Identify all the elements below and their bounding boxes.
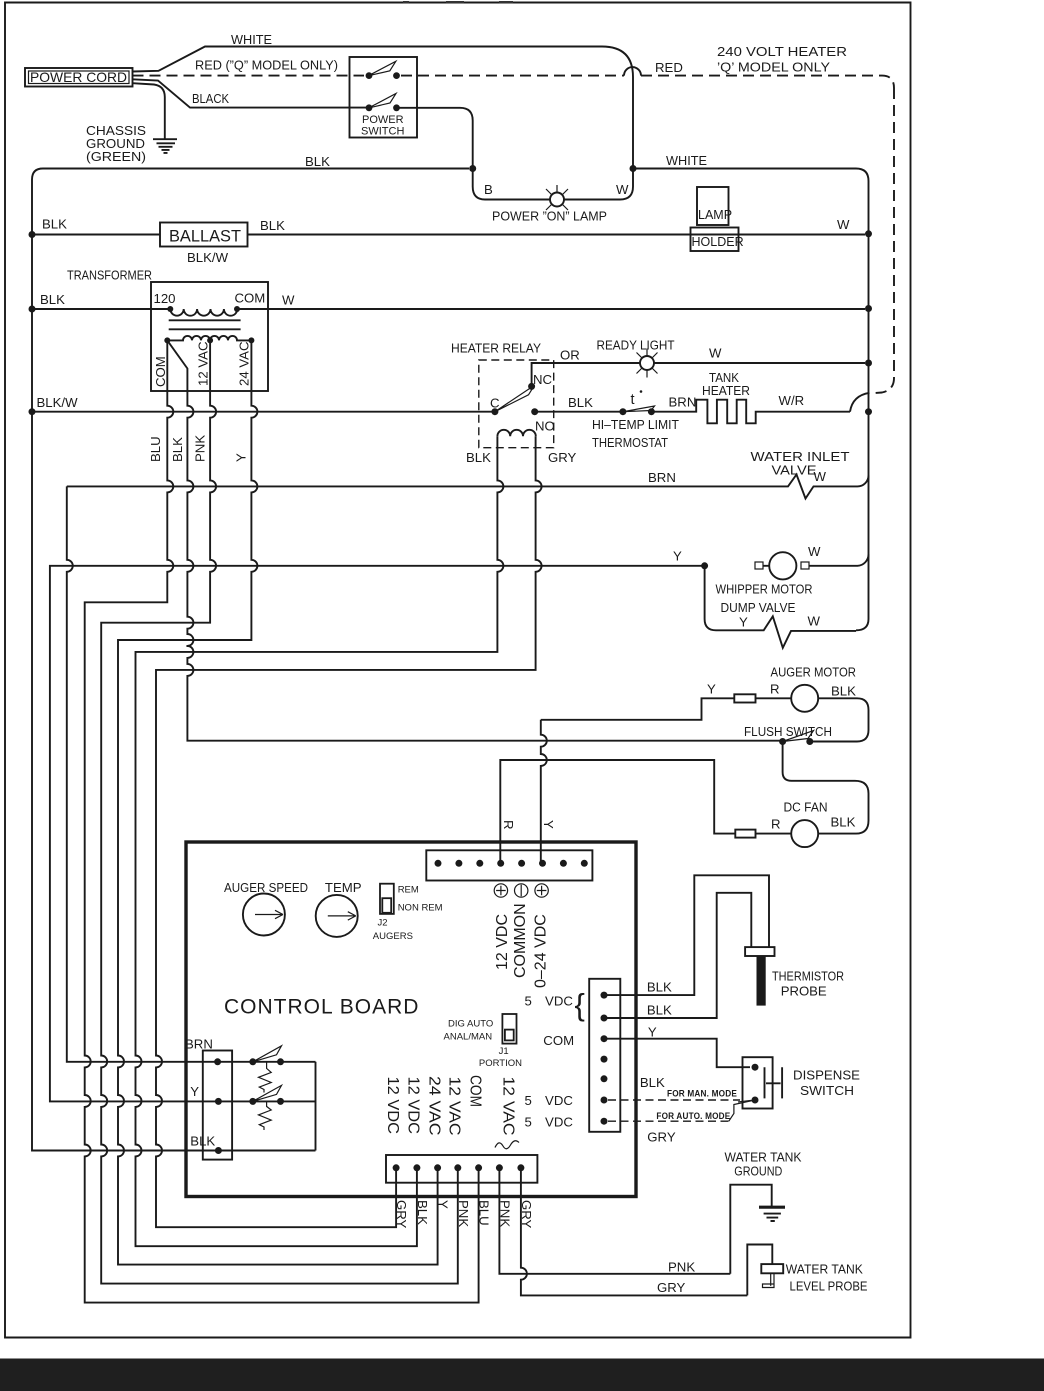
- svg-text:J1: J1: [499, 1046, 509, 1057]
- svg-text:C: C: [490, 396, 500, 411]
- svg-text:BLACK: BLACK: [192, 91, 229, 106]
- svg-text:BLK: BLK: [831, 684, 856, 699]
- svg-text:BLK: BLK: [568, 395, 593, 410]
- svg-text:0–24 VDC: 0–24 VDC: [533, 914, 550, 988]
- svg-text:BRN: BRN: [669, 395, 697, 410]
- svg-text:5 VDC: 5 VDC: [525, 1093, 574, 1108]
- svg-text:THERMOSTAT: THERMOSTAT: [592, 435, 668, 450]
- svg-text:FOR MAN. MODE: FOR MAN. MODE: [667, 1089, 737, 1099]
- svg-text:COMMON: COMMON: [512, 903, 529, 978]
- svg-text:GROUND: GROUND: [734, 1164, 782, 1179]
- svg-text:COM: COM: [543, 1033, 574, 1048]
- svg-text:BLK: BLK: [42, 217, 67, 232]
- svg-text:12 VAC: 12 VAC: [500, 1077, 517, 1136]
- svg-text:BALLAST: BALLAST: [169, 227, 241, 246]
- svg-text:GRY: GRY: [647, 1130, 676, 1145]
- svg-text:BLK/W: BLK/W: [37, 395, 79, 410]
- svg-text:REM: REM: [398, 885, 419, 896]
- svg-text:SWITCH: SWITCH: [361, 126, 404, 138]
- svg-text:12 VDC: 12 VDC: [384, 1077, 401, 1135]
- svg-text:PORTION: PORTION: [479, 1058, 522, 1069]
- svg-text:12 VAC: 12 VAC: [446, 1077, 463, 1136]
- svg-text:24 VAC: 24 VAC: [425, 1076, 442, 1136]
- svg-text:GRY: GRY: [548, 450, 577, 465]
- svg-text:COM: COM: [235, 291, 266, 306]
- svg-text:NON REM: NON REM: [398, 903, 443, 914]
- svg-text:OR: OR: [560, 348, 580, 363]
- svg-text:WHIPPER MOTOR: WHIPPER MOTOR: [716, 582, 813, 597]
- svg-text:Y: Y: [234, 453, 249, 462]
- svg-text:COM: COM: [466, 1075, 483, 1107]
- svg-text:SWITCH: SWITCH: [800, 1083, 854, 1098]
- svg-text:Y: Y: [673, 549, 682, 564]
- svg-text:HOLDER: HOLDER: [692, 235, 744, 249]
- svg-text:’Q’ MODEL ONLY: ’Q’ MODEL ONLY: [717, 60, 830, 75]
- svg-text:DIG AUTO: DIG AUTO: [448, 1019, 493, 1030]
- svg-text:J2: J2: [378, 918, 388, 929]
- svg-text:HEATER: HEATER: [702, 383, 750, 398]
- svg-text:BLK: BLK: [831, 815, 856, 830]
- svg-text:(GREEN): (GREEN): [86, 149, 146, 164]
- svg-text:BLU: BLU: [148, 436, 163, 462]
- svg-text:W: W: [808, 614, 821, 629]
- svg-text:PNK: PNK: [668, 1260, 695, 1275]
- svg-text:NC: NC: [533, 372, 553, 387]
- svg-text:TEMP: TEMP: [325, 880, 362, 895]
- svg-text:WATER TANK: WATER TANK: [725, 1150, 802, 1165]
- svg-text:PNK: PNK: [456, 1200, 471, 1227]
- svg-text:WHITE: WHITE: [666, 153, 707, 168]
- svg-text:THERMISTOR: THERMISTOR: [772, 969, 844, 984]
- svg-text:HEATER RELAY: HEATER RELAY: [451, 341, 541, 356]
- svg-text:RED: RED: [655, 60, 683, 75]
- svg-text:BLK: BLK: [190, 1134, 215, 1149]
- svg-text:240 VOLT HEATER: 240 VOLT HEATER: [717, 44, 847, 59]
- svg-text:R: R: [501, 820, 516, 830]
- svg-text:Y: Y: [739, 615, 748, 630]
- svg-text:R: R: [770, 682, 780, 697]
- svg-text:W: W: [282, 293, 295, 308]
- svg-text:HI–TEMP LIMIT: HI–TEMP LIMIT: [592, 417, 679, 432]
- svg-text:W/R: W/R: [779, 393, 805, 408]
- svg-text:POWER ”ON” LAMP: POWER ”ON” LAMP: [492, 209, 607, 224]
- svg-text:GRY: GRY: [657, 1280, 686, 1295]
- svg-text:FLUSH SWITCH: FLUSH SWITCH: [744, 724, 832, 739]
- svg-text:12 VDC: 12 VDC: [405, 1077, 422, 1135]
- svg-text:W: W: [808, 544, 821, 559]
- svg-text:24 VAC: 24 VAC: [237, 341, 252, 386]
- svg-text:VALVE: VALVE: [772, 463, 817, 478]
- svg-text:WATER TANK: WATER TANK: [786, 1262, 863, 1277]
- svg-text:W: W: [709, 346, 722, 361]
- svg-text:BLK: BLK: [170, 437, 185, 462]
- svg-text:BLK: BLK: [305, 154, 330, 169]
- svg-text:DC FAN: DC FAN: [784, 800, 828, 815]
- svg-text:DISPENSE: DISPENSE: [793, 1068, 860, 1083]
- svg-text:PROBE: PROBE: [781, 984, 827, 999]
- svg-text:{: {: [575, 987, 585, 1022]
- svg-text:BLK: BLK: [640, 1075, 665, 1090]
- svg-text:AUGERS: AUGERS: [373, 931, 413, 942]
- svg-text:BLK/W: BLK/W: [187, 250, 229, 265]
- svg-text:Y: Y: [436, 1200, 451, 1209]
- svg-text:5 VDC: 5 VDC: [525, 994, 574, 1009]
- svg-text:BLK: BLK: [647, 1003, 672, 1018]
- svg-text:FOR AUTO. MODE: FOR AUTO. MODE: [656, 1111, 730, 1121]
- svg-text:BRN: BRN: [648, 470, 676, 485]
- svg-text:LEVEL PROBE: LEVEL PROBE: [790, 1279, 868, 1294]
- svg-text:LAMP: LAMP: [698, 208, 732, 222]
- svg-text:READY LIGHT: READY LIGHT: [597, 338, 675, 353]
- svg-text:DUMP VALVE: DUMP VALVE: [721, 600, 796, 615]
- svg-text:BLK: BLK: [260, 218, 285, 233]
- svg-text:COM: COM: [153, 356, 168, 387]
- svg-text:R: R: [771, 817, 781, 832]
- svg-text:TRANSFORMER: TRANSFORMER: [67, 268, 152, 283]
- svg-text:BRN: BRN: [185, 1037, 213, 1052]
- svg-text:GRY: GRY: [394, 1200, 409, 1229]
- svg-text:WHITE: WHITE: [231, 32, 272, 47]
- svg-text:BLK: BLK: [40, 292, 65, 307]
- svg-text:W: W: [616, 182, 629, 197]
- svg-text:BLK: BLK: [466, 450, 491, 465]
- svg-text:120: 120: [154, 291, 176, 306]
- svg-text:t: t: [631, 392, 635, 408]
- svg-text:PNK: PNK: [193, 435, 208, 462]
- svg-text:RED (”Q” MODEL ONLY): RED (”Q” MODEL ONLY): [195, 58, 338, 73]
- svg-text:AUGER MOTOR: AUGER MOTOR: [771, 665, 857, 680]
- svg-text:12 VAC: 12 VAC: [196, 341, 211, 386]
- svg-text:B: B: [484, 182, 493, 197]
- svg-text:W: W: [837, 217, 850, 232]
- svg-text:NO: NO: [535, 419, 555, 434]
- svg-text:POWER: POWER: [362, 114, 404, 126]
- svg-text:BLK: BLK: [647, 980, 672, 995]
- svg-text:Y: Y: [707, 682, 716, 697]
- svg-text:Y: Y: [190, 1084, 199, 1099]
- svg-text:BLK: BLK: [415, 1200, 430, 1225]
- svg-text:5 VDC: 5 VDC: [525, 1115, 574, 1130]
- svg-text:POWER CORD: POWER CORD: [30, 69, 127, 85]
- svg-text:CONTROL BOARD: CONTROL BOARD: [224, 996, 419, 1019]
- svg-text:Y: Y: [541, 820, 556, 829]
- svg-text:BLU: BLU: [477, 1200, 492, 1226]
- svg-text:ANAL/MAN: ANAL/MAN: [444, 1032, 493, 1043]
- svg-text:12 VDC: 12 VDC: [494, 914, 511, 970]
- svg-text:Y: Y: [648, 1025, 657, 1040]
